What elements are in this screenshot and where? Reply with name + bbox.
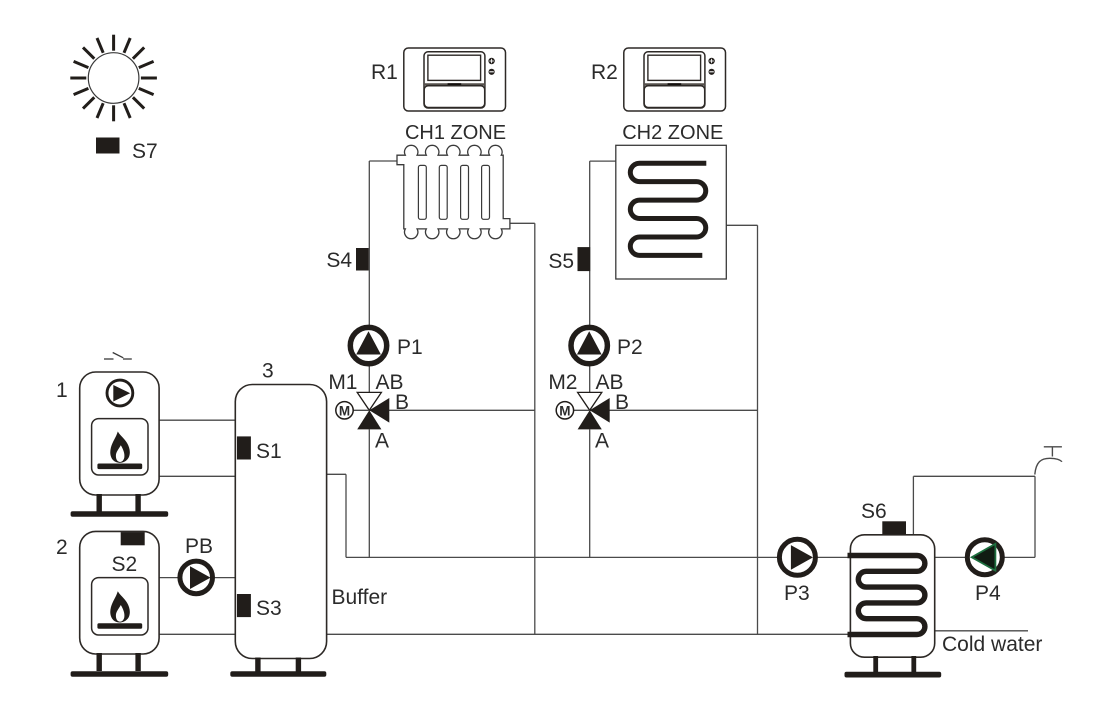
svg-text:Buffer: Buffer xyxy=(332,586,388,609)
wire tank top to recirculation xyxy=(912,476,914,535)
sensor S7 xyxy=(96,138,120,154)
svg-text:S1: S1 xyxy=(256,440,282,463)
svg-text:R1: R1 xyxy=(371,61,398,84)
valve M2 xyxy=(548,371,629,453)
wire boiler1 top to buffer xyxy=(159,419,235,421)
valve M1 xyxy=(328,371,409,453)
thermostat R2 xyxy=(591,48,726,111)
sensor S6 xyxy=(882,521,906,534)
svg-text:P4: P4 xyxy=(975,582,1001,605)
pump PB xyxy=(180,535,213,594)
svg-text:3: 3 xyxy=(262,360,274,383)
wire CH2 outlet xyxy=(726,224,757,226)
boiler 1 pump xyxy=(107,380,133,406)
svg-text:1: 1 xyxy=(56,379,68,402)
buffer tank 3 xyxy=(230,360,387,677)
boiler 1 burner bar xyxy=(97,464,142,470)
buffer base xyxy=(230,671,326,677)
sensor S2 xyxy=(121,532,145,545)
boiler 2 burner bar xyxy=(97,623,142,629)
wire return line xyxy=(327,633,851,635)
wire M2 B port horizontal xyxy=(590,409,758,411)
sensor S5 xyxy=(578,247,591,271)
boiler 1 burner box xyxy=(92,419,148,475)
sensor S3 xyxy=(237,594,251,617)
sensor S1 xyxy=(237,436,251,459)
boiler 1 xyxy=(56,353,168,517)
svg-text:S3: S3 xyxy=(256,597,282,620)
boiler 1 flame xyxy=(110,432,130,463)
wire CH2 return vertical xyxy=(757,225,759,634)
wire buffer outlet step horizontal xyxy=(327,473,346,475)
wire CH1 return vertical xyxy=(534,223,536,634)
svg-text:P1: P1 xyxy=(397,336,423,359)
tap xyxy=(1035,447,1062,475)
hot water tank xyxy=(845,500,942,678)
sensor S4 xyxy=(356,248,369,271)
svg-text:S4: S4 xyxy=(326,249,352,272)
floor heating zone CH2 xyxy=(616,145,727,279)
svg-text:P2: P2 xyxy=(617,336,643,359)
wire M1 B port horizontal xyxy=(369,409,535,411)
svg-text:2: 2 xyxy=(56,536,68,559)
wire recirculation horizontal xyxy=(913,475,1035,477)
pump P1 xyxy=(350,327,422,363)
boiler 1 leg right xyxy=(135,494,140,512)
svg-text:CH2 ZONE: CH2 ZONE xyxy=(622,122,723,144)
boiler 2 leg left xyxy=(97,653,102,671)
svg-text:B: B xyxy=(615,391,629,414)
pump P2 xyxy=(571,327,643,363)
wire radiator outlet xyxy=(510,222,535,224)
boiler 2 base xyxy=(71,671,169,677)
svg-text:M1: M1 xyxy=(328,371,357,394)
svg-text:S7: S7 xyxy=(132,140,158,163)
svg-text:S5: S5 xyxy=(548,250,574,273)
tank leg left xyxy=(873,656,878,672)
boiler 2 flame xyxy=(110,591,130,622)
svg-text:A: A xyxy=(375,430,389,453)
buffer leg left xyxy=(255,658,260,673)
wire boiler1 bottom to buffer xyxy=(159,475,235,477)
boiler 2 leg right xyxy=(135,653,140,671)
wire M2 valve A port down xyxy=(589,429,591,557)
wire riser to CH2 inlet xyxy=(590,160,616,162)
wire P4 line xyxy=(935,556,1035,558)
boiler 2 burner box xyxy=(92,578,148,635)
wire supply line xyxy=(346,556,850,558)
svg-text:P3: P3 xyxy=(784,582,810,605)
wire P1 riser xyxy=(368,161,370,392)
sun S7 xyxy=(70,35,157,122)
tank leg right xyxy=(911,656,916,672)
wire tap riser xyxy=(1034,476,1036,557)
switch symbol above boiler 1 xyxy=(104,353,132,360)
svg-text:Cold water: Cold water xyxy=(942,633,1042,656)
thermostat R1 xyxy=(371,48,506,111)
radiator CH1 xyxy=(397,145,510,238)
svg-text:M: M xyxy=(559,403,570,418)
buffer leg right xyxy=(296,658,301,673)
pump P3 xyxy=(779,539,815,605)
svg-text:A: A xyxy=(595,430,609,453)
tank coil xyxy=(848,556,925,635)
wire boiler2 through PB to buffer xyxy=(159,577,235,579)
boiler 2 xyxy=(56,531,168,676)
svg-text:B: B xyxy=(395,391,409,414)
boiler 1 base xyxy=(71,511,169,517)
svg-text:M2: M2 xyxy=(548,371,577,394)
svg-text:R2: R2 xyxy=(591,61,618,84)
boiler 1 leg left xyxy=(97,494,102,512)
svg-text:PB: PB xyxy=(185,535,213,558)
wire riser to radiator inlet xyxy=(369,160,397,162)
svg-text:CH1 ZONE: CH1 ZONE xyxy=(405,122,506,144)
wire buffer outlet step vertical xyxy=(345,474,347,557)
svg-text:M: M xyxy=(339,403,350,418)
wire boiler2 bottom to buffer xyxy=(159,633,235,635)
svg-text:S2: S2 xyxy=(112,553,138,576)
pump P4 xyxy=(967,540,1002,605)
wire M1 valve A port down xyxy=(368,429,370,557)
svg-text:S6: S6 xyxy=(861,500,887,523)
tank base xyxy=(845,672,942,678)
wire cold water xyxy=(935,630,1028,632)
wire P2 riser xyxy=(589,161,591,392)
